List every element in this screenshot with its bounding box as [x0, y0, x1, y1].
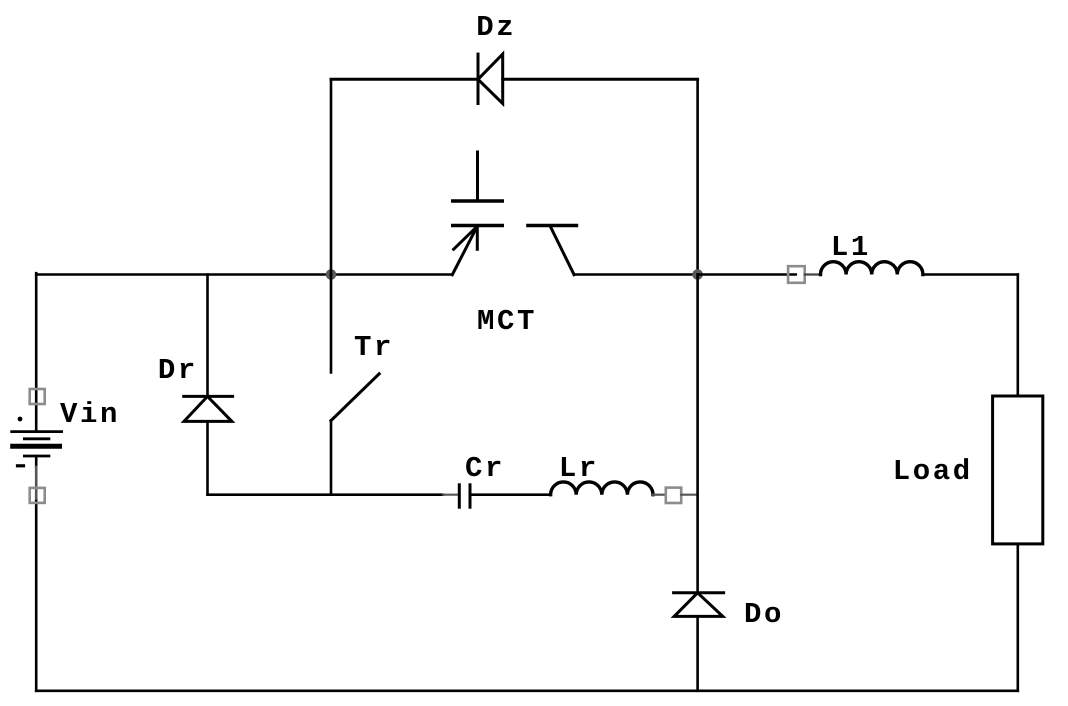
diode Dz [478, 54, 503, 103]
svg-text:Load: Load [893, 455, 973, 488]
wire bottom rail [36, 689, 1018, 692]
switch Tr [331, 275, 379, 495]
wire Dz right leg [696, 79, 699, 274]
svg-text:Vin: Vin [60, 398, 120, 431]
wire Cr stub [443, 494, 458, 496]
inductor L1 [821, 262, 923, 275]
battery Vin [12, 417, 62, 466]
svg-text:Dz: Dz [476, 11, 516, 44]
wire L1 stub [805, 273, 821, 275]
wire Do bottom [696, 616, 699, 690]
wire top rail [36, 273, 452, 276]
wire left rail bottom [35, 501, 38, 691]
svg-text:Cr: Cr [465, 452, 505, 485]
port battery plus [30, 389, 45, 404]
wire MCT right to junction [574, 273, 698, 276]
node junction right [692, 269, 703, 280]
svg-text:Tr: Tr [354, 331, 394, 364]
svg-text:MCT: MCT [477, 305, 537, 338]
port battery minus [30, 488, 45, 503]
capacitor Cr [459, 485, 470, 507]
port Lr [666, 488, 681, 503]
svg-text:Dr: Dr [158, 354, 198, 387]
wire junction to L1 port [698, 273, 796, 276]
wire Lr stub [653, 494, 666, 496]
wire Cr to Lr [470, 493, 551, 496]
wire load bottom [1016, 544, 1019, 691]
node junction left [326, 269, 337, 280]
svg-text:Lr: Lr [559, 452, 599, 485]
wire left rail lower [35, 456, 38, 467]
port L1 [788, 266, 805, 283]
wire Dz top right [503, 78, 698, 81]
wire L1 to corner [923, 273, 1018, 276]
wire Dz left leg [330, 79, 333, 274]
wire Dr bottom [206, 421, 209, 494]
diode Do [674, 593, 724, 617]
wire bottom left horizontal [208, 493, 444, 496]
wire Dz top left [331, 78, 478, 81]
svg-text:Do: Do [744, 598, 784, 631]
wire right rail [696, 275, 699, 593]
svg-text:L1: L1 [831, 231, 871, 264]
resistor Load [993, 396, 1043, 544]
wire left rail upper [35, 273, 38, 431]
thyristor MCT [452, 152, 576, 275]
wire battery bottom stub [35, 467, 38, 501]
wire load top [1016, 275, 1019, 397]
wire Dr tap [206, 275, 209, 397]
inductor Lr [551, 482, 653, 495]
diode Dr [184, 396, 233, 421]
wire port to rail [681, 494, 697, 496]
